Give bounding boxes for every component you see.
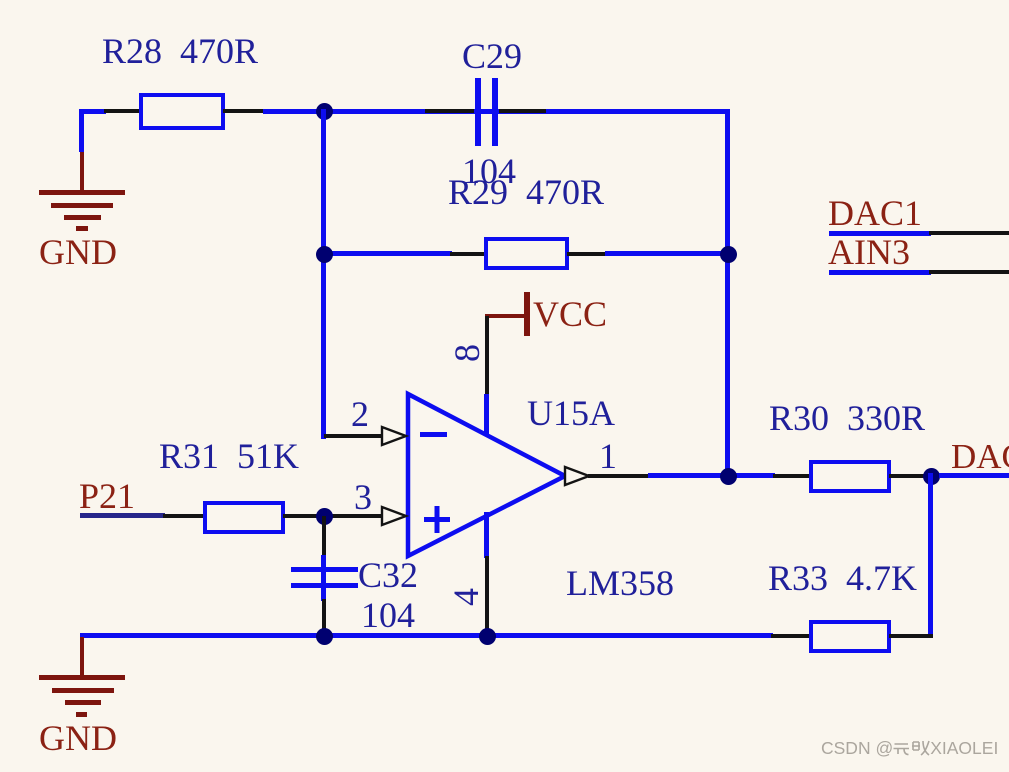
net label P21 [0, 0, 1, 1]
net label DAC1 [0, 0, 1, 1]
net label DAC (clipped at right edge) [0, 0, 1, 1]
resistor R30 330R [0, 0, 1, 1]
node: output feedback junction [720, 468, 737, 485]
node: R29 left junction [316, 246, 333, 263]
pin 2 (inverting input) [0, 0, 1, 1]
resistor R31 51K [0, 0, 1, 1]
wire: output net [648, 473, 775, 478]
wire: inverting branch vertical [321, 109, 326, 439]
node: junction R28 / C29 / inverting branch [316, 103, 333, 120]
power VCC [0, 0, 1, 1]
wire: top net from R28 to top-right corner [263, 109, 730, 114]
resistor R28 470R [0, 0, 1, 1]
node: C32 ground junction [316, 628, 333, 645]
capacitor C29 104 [0, 0, 1, 1]
resistor R29 470R [0, 0, 1, 1]
pin 3 (non-inverting input) [0, 0, 1, 1]
ground GND (top-left) [0, 0, 1, 1]
wire: ground rail [80, 633, 773, 638]
capacitor C32 104 [0, 0, 1, 1]
watermark CSDN [821, 738, 998, 759]
pin 4 (V-) of op-amp [0, 0, 1, 1]
pin 8 (V+) of op-amp [0, 0, 1, 1]
node: R29 right junction [720, 246, 737, 263]
net label AIN3 [0, 0, 1, 1]
op-amp U15A body [390, 380, 590, 580]
label LM358 [566, 565, 674, 601]
node: DAC output junction [923, 468, 940, 485]
wire: feedback vertical on right [928, 473, 933, 638]
pin 1 (output) [0, 0, 1, 1]
wire: right vertical from C29 corner down to output node [725, 109, 730, 479]
wire: top-left elbow from GND up to R28 [0, 0, 1, 1]
label U15A [527, 395, 615, 431]
node: non-inverting junction [316, 508, 333, 525]
ground GND (bottom-left) [0, 0, 1, 1]
node: pin 4 ground junction [479, 628, 496, 645]
resistor R33 4.7K [0, 0, 1, 1]
